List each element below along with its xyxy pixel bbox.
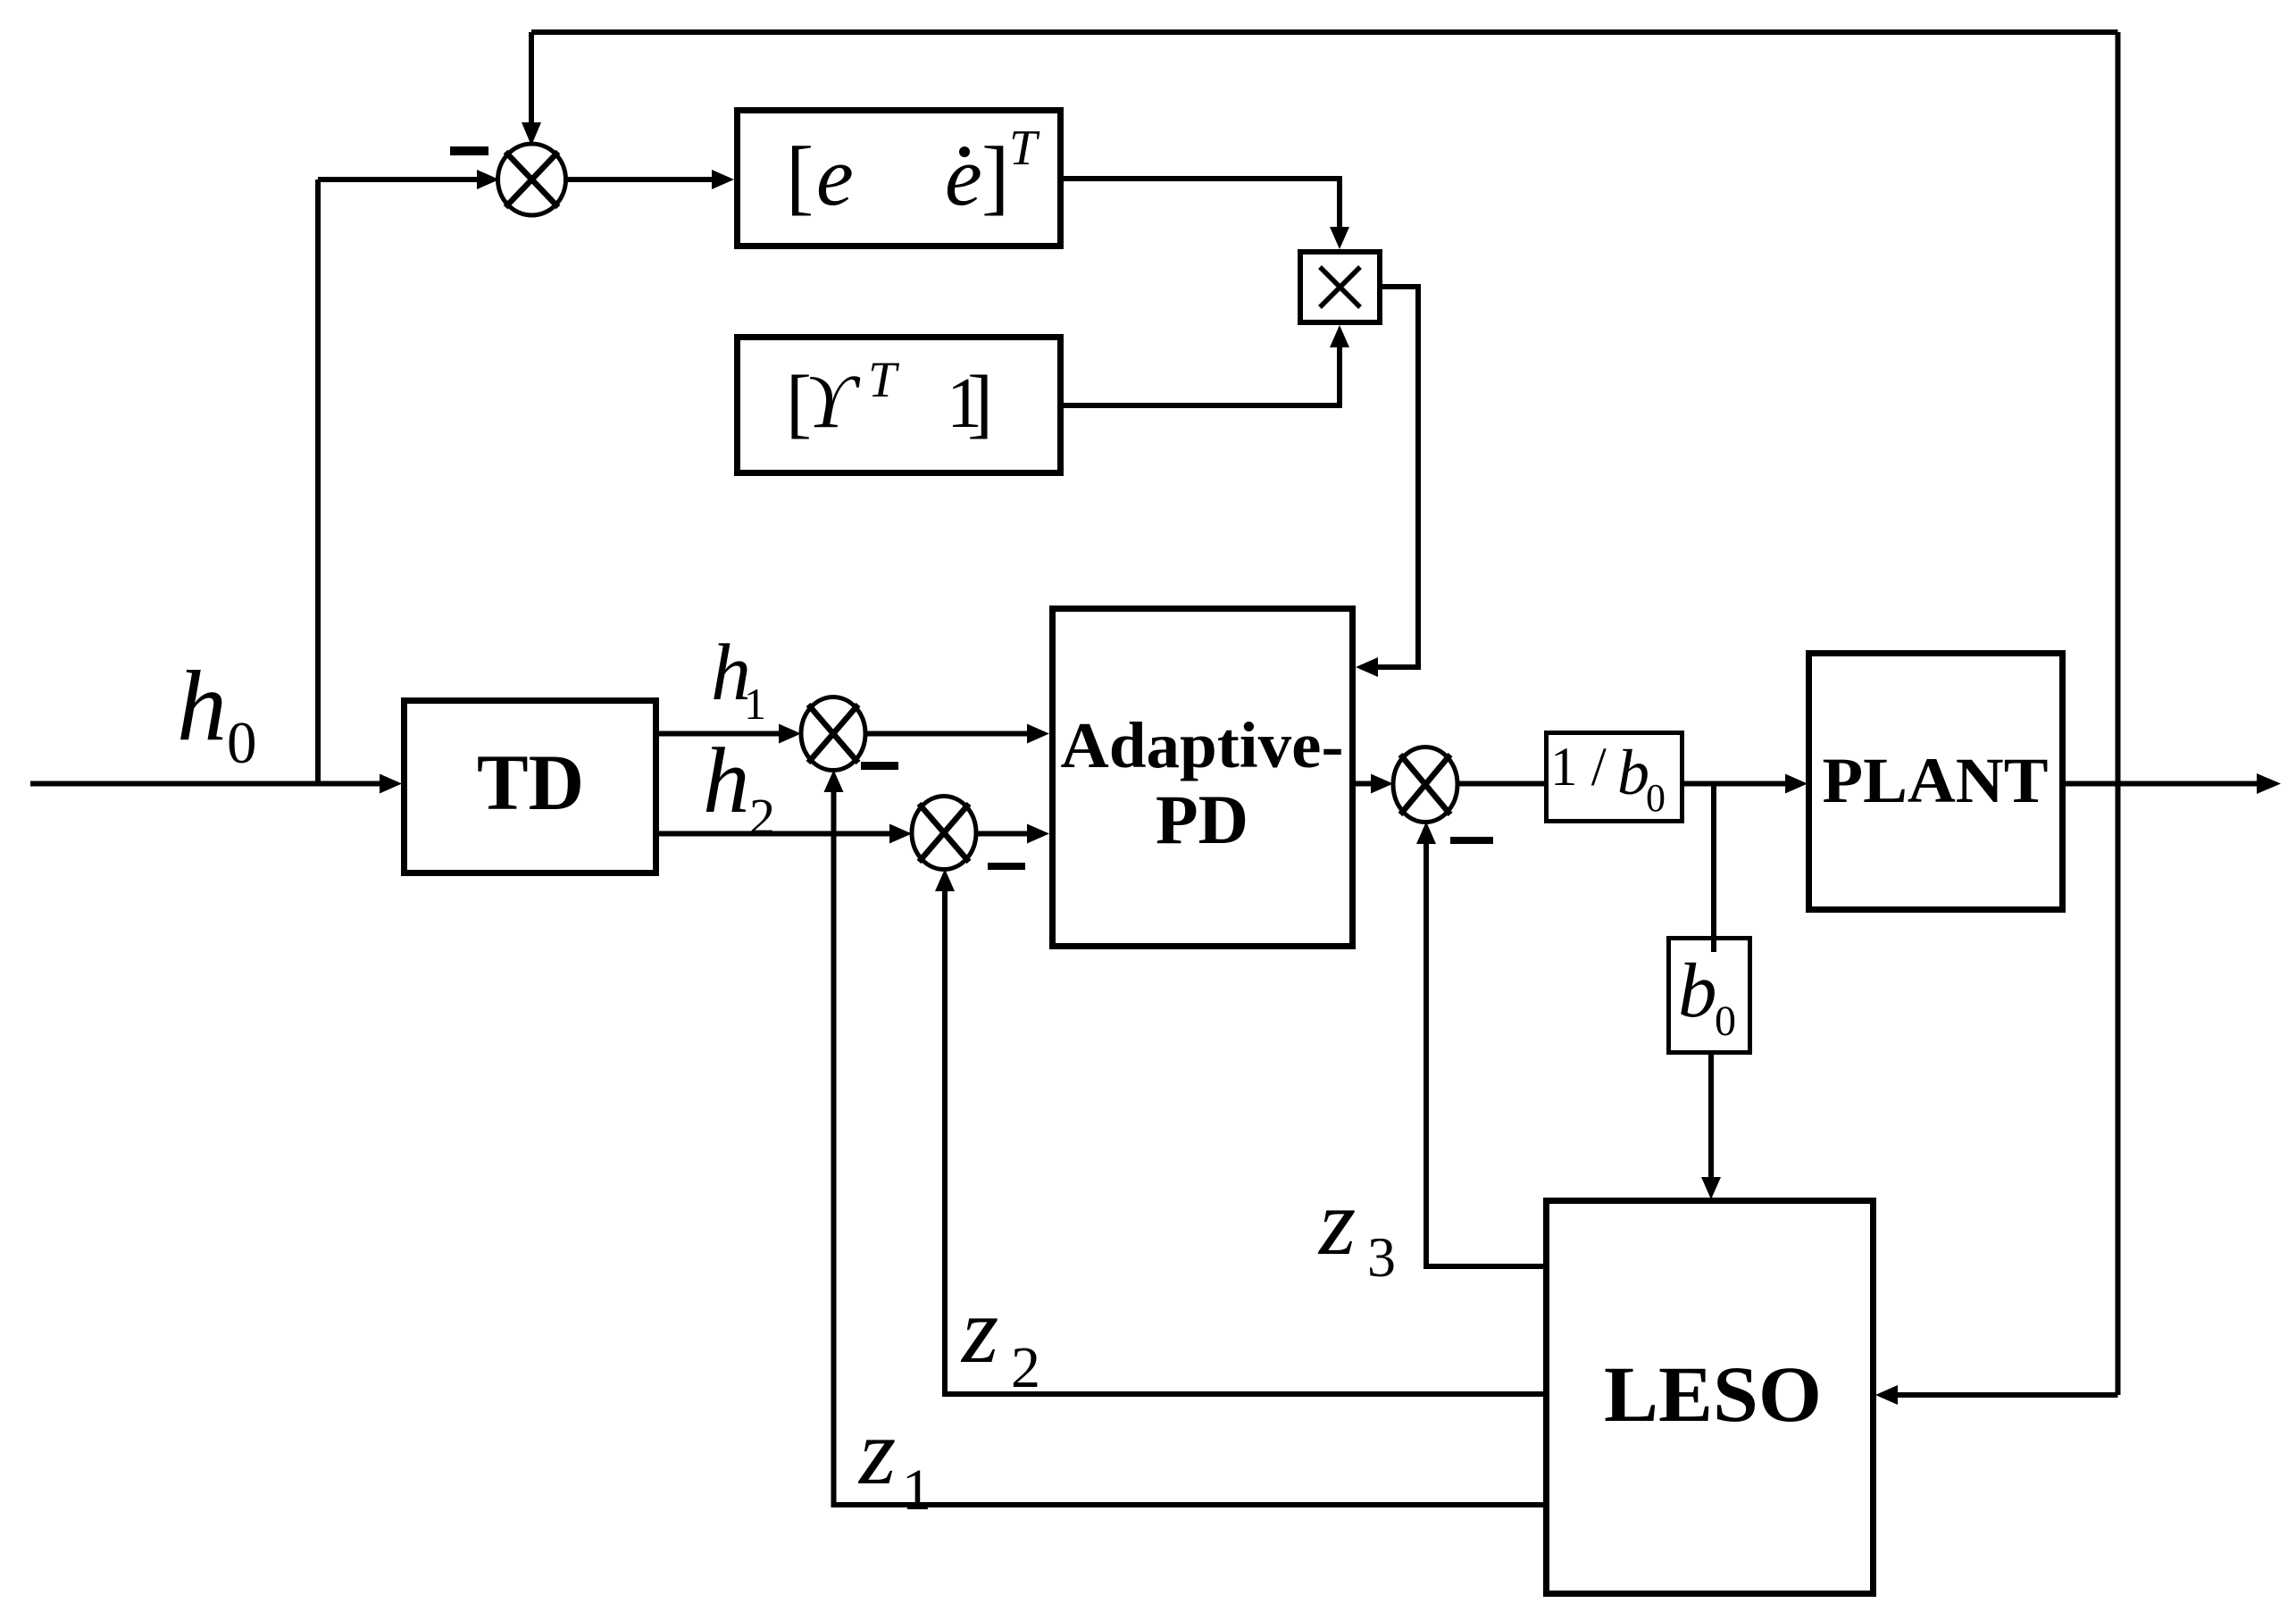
svg-text:PLANT: PLANT [1823,745,2049,816]
svg-text:3: 3 [1367,1225,1396,1289]
svg-text:LESO: LESO [1604,1351,1822,1439]
svg-text:h: h [177,651,227,762]
svg-text:1: 1 [744,679,766,729]
svg-text:[: [ [786,130,814,223]
svg-text:ϒ: ϒ [806,358,861,444]
svg-text:z: z [960,1278,998,1382]
svg-text:b: b [1678,947,1717,1033]
svg-text:z: z [1317,1170,1356,1274]
svg-text:0: 0 [1646,776,1666,820]
svg-text:z: z [857,1399,896,1504]
svg-text:]: ] [967,359,993,446]
svg-text:PD: PD [1156,781,1248,858]
svg-text:TD: TD [477,739,584,827]
svg-text:Adaptive-: Adaptive- [1061,709,1344,781]
svg-text:1: 1 [902,1457,931,1523]
svg-text:2: 2 [749,788,775,846]
svg-text:1 /: 1 / [1550,738,1607,797]
svg-text:h: h [703,728,750,832]
svg-text:2: 2 [1011,1335,1040,1400]
svg-text:e: e [816,130,854,223]
svg-text:]: ] [981,130,1009,223]
svg-text:T: T [1009,121,1040,176]
svg-text:e: e [945,130,982,223]
svg-text:0: 0 [1715,998,1736,1045]
svg-text:T: T [868,352,900,408]
svg-text:0: 0 [227,710,257,776]
svg-text:b: b [1617,737,1649,808]
